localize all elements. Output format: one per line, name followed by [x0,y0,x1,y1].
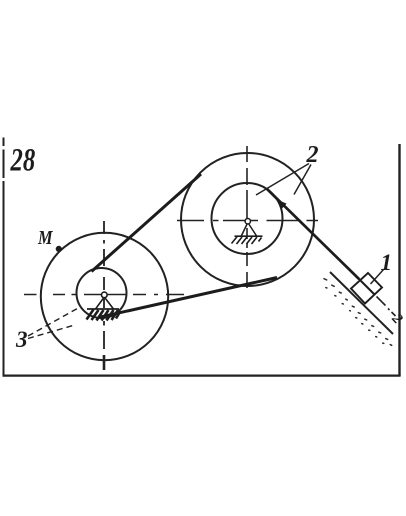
svg-text:M: M [37,227,53,249]
svg-text:3: 3 [15,327,28,352]
svg-text:28: 28 [10,142,36,178]
